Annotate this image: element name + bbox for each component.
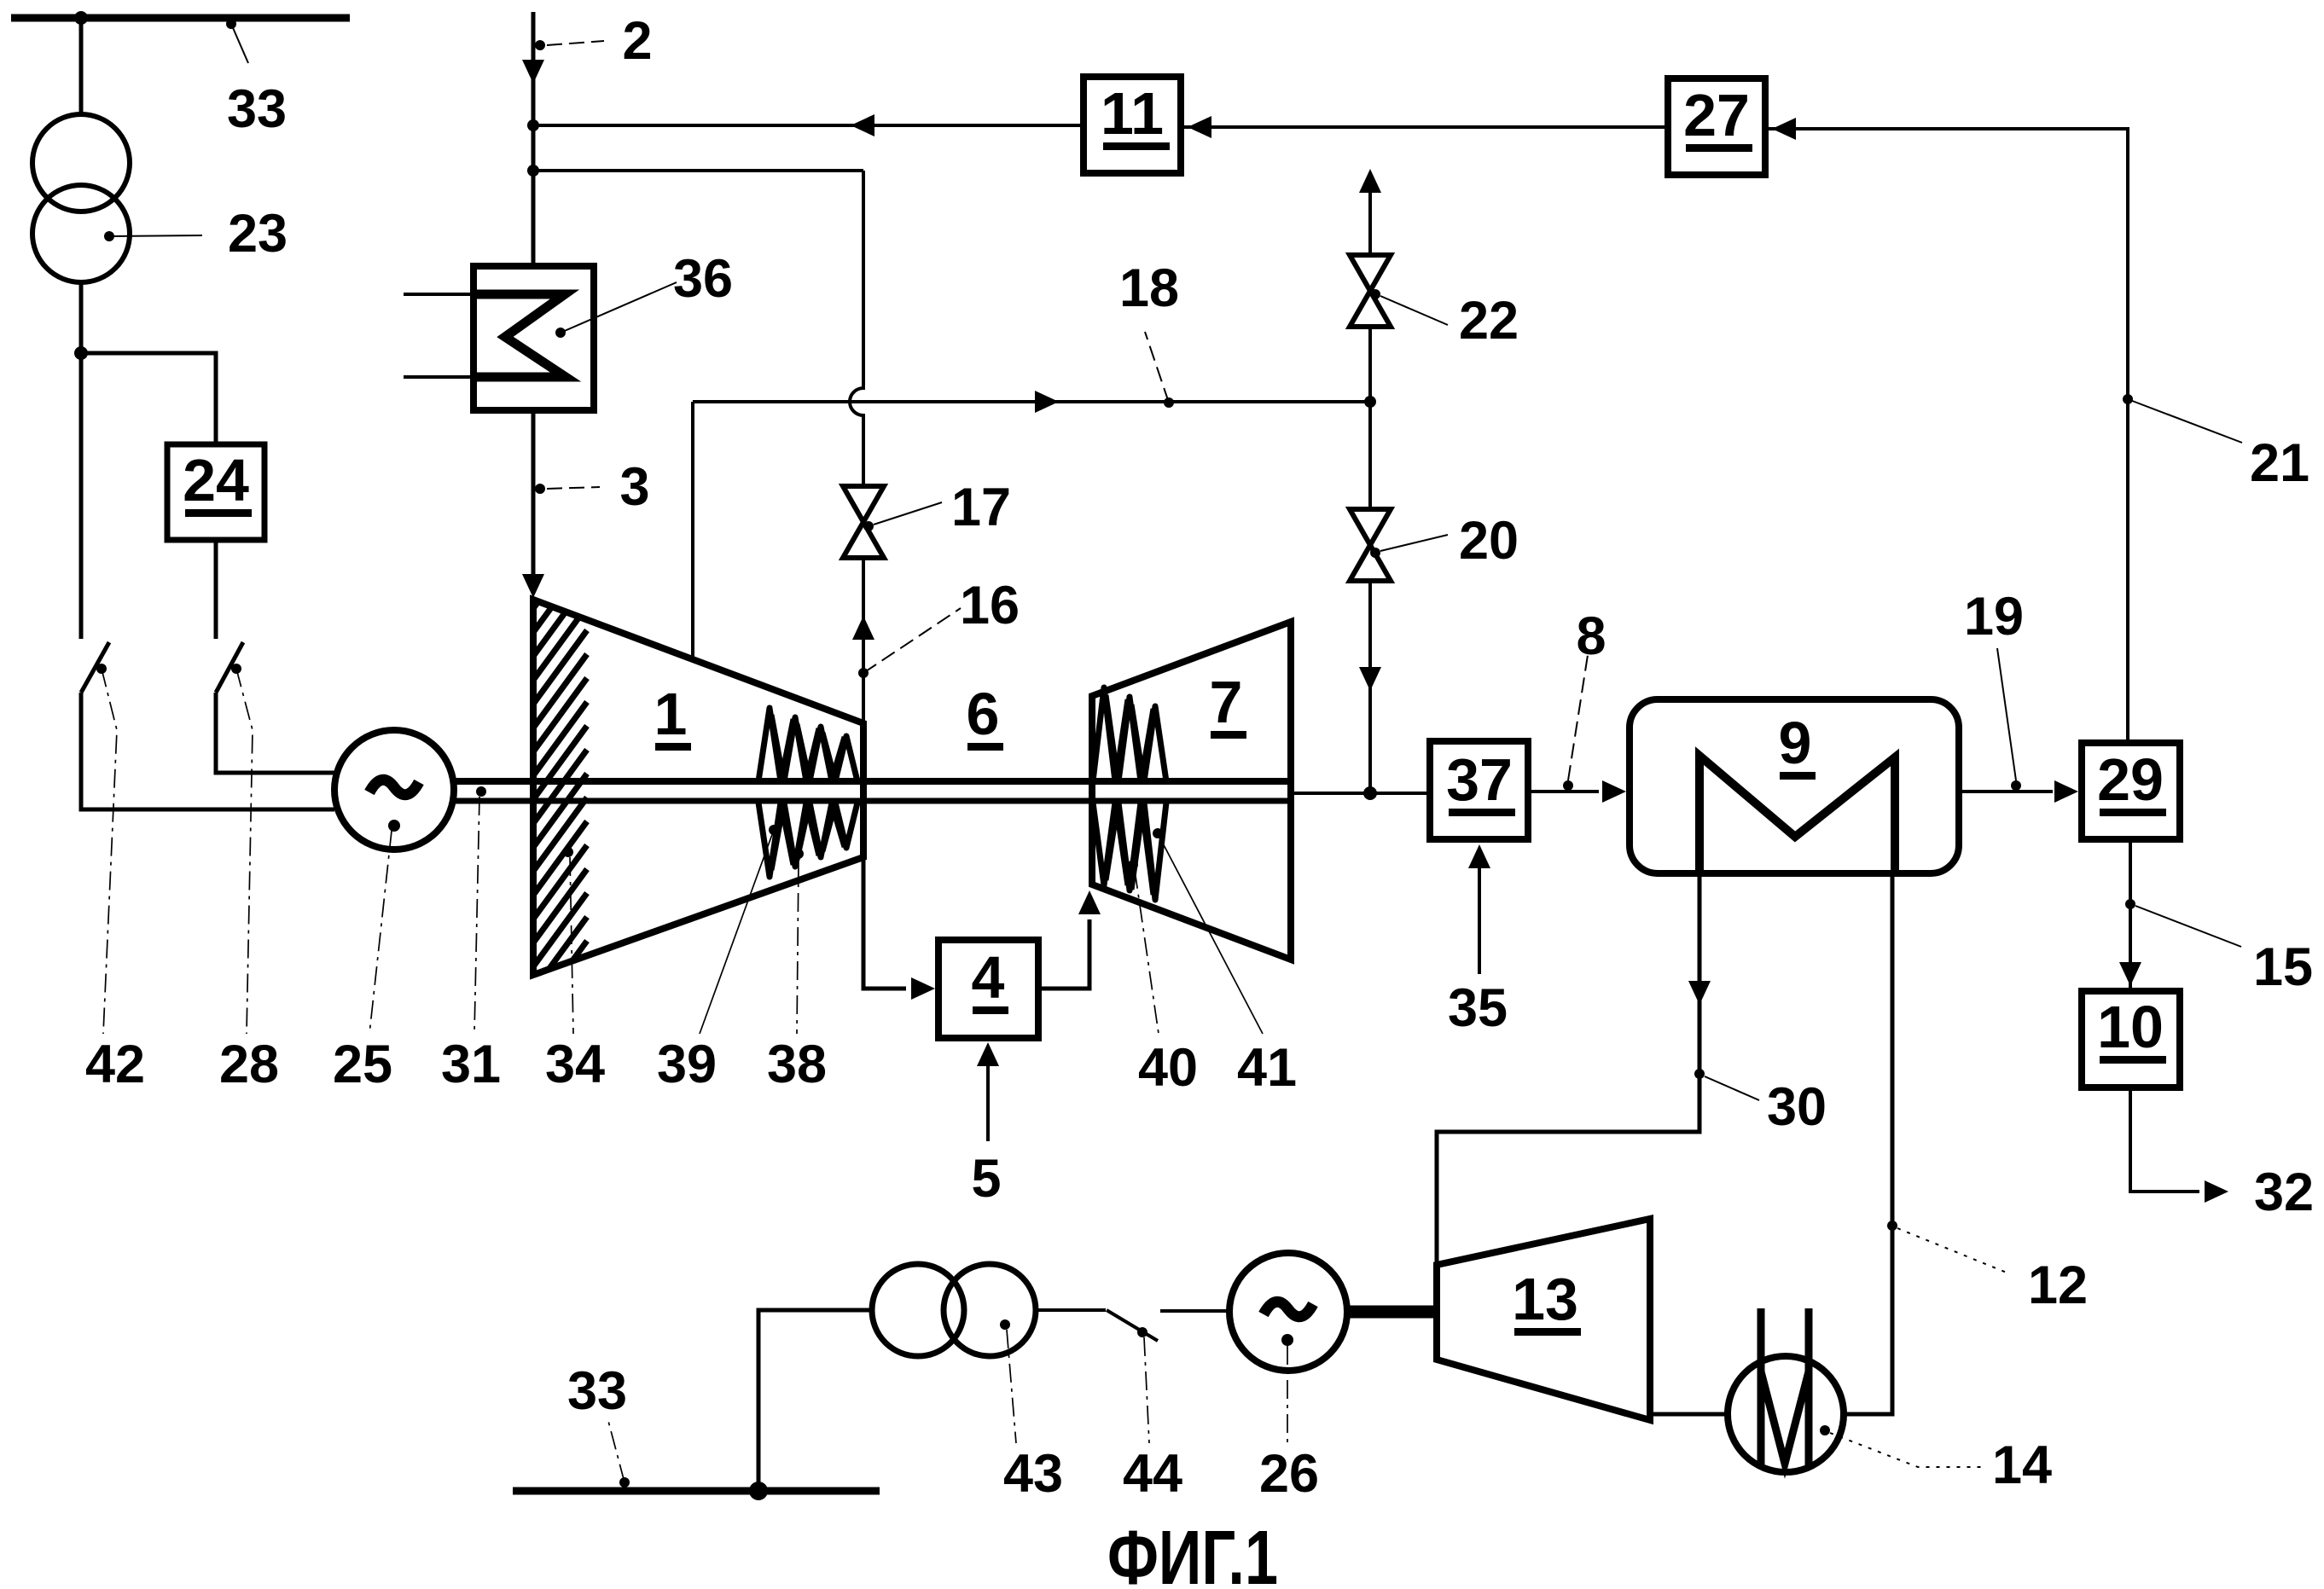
arrow up vent	[1359, 169, 1381, 193]
dot for label 20	[1370, 548, 1380, 558]
dot for label 22	[1370, 289, 1380, 299]
svg-text:7: 7	[1210, 669, 1243, 735]
junction header 18 with valve column	[1364, 396, 1376, 408]
dot for label 41	[1153, 828, 1163, 838]
svg-text:10: 10	[2097, 994, 2164, 1060]
heat exchanger 36 (anti-icing heater)	[474, 266, 594, 410]
svg-text:1: 1	[654, 681, 688, 747]
wire switch 42 to generator 25	[81, 693, 334, 809]
label 7	[1210, 669, 1246, 739]
arrow into combustor 4	[911, 977, 935, 1000]
heat recovery boiler 9	[1630, 699, 1959, 873]
label 37	[1446, 746, 1515, 816]
box 10	[2082, 991, 2180, 1087]
label 4	[972, 944, 1008, 1014]
bleed pipe valve 17 to compressor exit	[862, 558, 865, 723]
dot inside generator 25	[388, 820, 400, 832]
svg-text:6: 6	[967, 681, 1000, 747]
junction node below transformer 23	[74, 346, 88, 360]
leader for label 2	[547, 41, 604, 45]
leader for label 31	[474, 797, 479, 1034]
dot for label 15	[2125, 899, 2135, 909]
svg-text:43: 43	[1003, 1444, 1063, 1504]
arrow into compressor inlet	[522, 574, 544, 598]
arrow up on bleed pipe 16	[852, 616, 874, 640]
duct 15 box 29 to box 10	[2129, 839, 2132, 991]
wire 21 riser to box 27	[1765, 129, 2128, 743]
svg-text:20: 20	[1459, 511, 1519, 571]
wire box 24 to switch 28	[214, 540, 218, 639]
svg-text:28: 28	[219, 1035, 279, 1094]
generator 25	[334, 730, 454, 850]
box 29	[2082, 743, 2180, 839]
steam turbine 13 (trapezoid)	[1437, 1219, 1650, 1420]
AC symbol of generator 26	[1264, 1302, 1313, 1316]
leader for label 25	[369, 831, 392, 1034]
riser from compressor bleed to header 18	[691, 402, 694, 659]
svg-text:32: 32	[2254, 1163, 2314, 1222]
leader for label 15	[2135, 906, 2241, 947]
arrow into box 10	[2119, 962, 2141, 986]
svg-text:4: 4	[972, 944, 1005, 1011]
svg-text:30: 30	[1767, 1077, 1827, 1137]
anti-ice wire from node to valve 17 drop	[533, 169, 863, 172]
label 29	[2097, 746, 2166, 816]
svg-text:34: 34	[545, 1035, 605, 1094]
dot on switch 42	[96, 664, 107, 674]
leader for label 21	[2128, 399, 2242, 443]
dot inside generator 26	[1281, 1334, 1293, 1346]
leader for label 28	[236, 669, 253, 1034]
dot for label 30	[1694, 1069, 1705, 1079]
leader for label 16	[863, 608, 961, 673]
dot for label 19	[2011, 780, 2021, 791]
dot for label 36	[555, 328, 566, 338]
hot gas duct combustor to turbine 7	[1038, 919, 1089, 989]
junction exhaust with valve 20 pipe	[1363, 786, 1377, 800]
arrow into boiler 9	[1602, 780, 1626, 803]
svg-text:40: 40	[1138, 1038, 1198, 1098]
leader for label 8	[1568, 655, 1588, 780]
valve 20	[1350, 509, 1391, 581]
condenser 14	[1728, 1356, 1844, 1472]
exhaust turbine 13 to condenser 14	[1650, 1412, 1728, 1417]
line 35 into box 37	[1478, 856, 1481, 974]
svg-text:37: 37	[1446, 746, 1513, 813]
dot for label 18	[1164, 397, 1174, 408]
leader for label 17	[874, 502, 942, 525]
dot for label 21	[2123, 394, 2133, 404]
dot for label 17	[863, 521, 874, 531]
compressor blade seals lower (39/38)	[758, 803, 857, 877]
leader for label 38	[797, 859, 799, 1034]
leader for label 39	[700, 830, 774, 1034]
wire transformer 23 down to switch 42	[79, 282, 84, 639]
AC symbol of generator 25	[369, 780, 419, 794]
svg-text:39: 39	[657, 1035, 717, 1094]
coil symbol of heat exchanger 36	[474, 294, 566, 377]
leader for label 12	[1897, 1228, 2007, 1273]
transformer 43 (two-winding)	[872, 1264, 1036, 1356]
svg-text:29: 29	[2097, 746, 2164, 813]
shaft generator 26 to turbine 13	[1347, 1306, 1437, 1319]
generator 26	[1229, 1253, 1347, 1371]
svg-text:31: 31	[441, 1035, 501, 1094]
box 11	[1084, 77, 1181, 173]
leader for label 18	[1145, 332, 1169, 403]
svg-text:33: 33	[567, 1361, 627, 1421]
dot on switch 44	[1137, 1327, 1147, 1337]
label 27	[1683, 82, 1752, 152]
dot on shaft for label 31	[476, 786, 486, 797]
bleed header 18	[693, 400, 1370, 403]
valve 17	[843, 486, 884, 558]
svg-text:44: 44	[1123, 1444, 1182, 1504]
node on intake line (recirculation tie-in)	[527, 119, 539, 131]
pipe header to valve 20	[1368, 402, 1372, 509]
hatching of compressor inlet wall 34	[534, 535, 587, 1061]
wire transformer 43 to bottom busbar	[758, 1310, 872, 1491]
boiler 9 internal M coil	[1699, 756, 1895, 873]
wire transformer 43 to switch 44	[1036, 1308, 1106, 1312]
vent pipe above valve 22	[1368, 192, 1372, 255]
node on intake line (anti-ice tie-in)	[527, 165, 539, 177]
svg-text:19: 19	[1964, 587, 2024, 647]
leader for label 36	[561, 282, 677, 333]
arrow of outlet 32	[2205, 1180, 2228, 1203]
svg-text:25: 25	[333, 1035, 392, 1094]
svg-text:15: 15	[2253, 937, 2313, 997]
arrow into box 11	[1188, 116, 1211, 138]
svg-text:21: 21	[2250, 433, 2309, 493]
turbine 7 (trapezoid casing)	[1092, 622, 1291, 960]
leader for label 26	[1287, 1346, 1288, 1446]
gas outlet duct 19 from boiler	[1959, 790, 2053, 793]
turbine exhaust duct to box 37	[1291, 792, 1430, 795]
svg-text:26: 26	[1259, 1444, 1319, 1504]
label 24	[183, 447, 252, 517]
svg-text:3: 3	[619, 457, 649, 517]
switch 44 blade	[1107, 1310, 1158, 1341]
svg-text:18: 18	[1119, 258, 1179, 318]
wire busbar to transformer 23	[79, 18, 84, 116]
leader for label 42	[102, 669, 117, 1034]
pipe header to valve 22	[1368, 327, 1372, 402]
arrow into turbine 7	[1078, 890, 1101, 914]
wire box 27 to box 11	[1181, 125, 1668, 129]
dot for label 16	[858, 668, 869, 678]
transformer 23 (two-winding)	[32, 114, 130, 282]
svg-text:38: 38	[767, 1035, 827, 1094]
dot for label 39	[769, 825, 779, 835]
svg-text:2: 2	[622, 11, 652, 71]
label 9	[1779, 710, 1816, 780]
svg-text:22: 22	[1459, 291, 1519, 351]
svg-text:36: 36	[673, 249, 733, 309]
dot for label 40	[1128, 860, 1138, 870]
box 27	[1668, 78, 1765, 175]
compressor discharge duct to combustor 4	[863, 857, 906, 989]
svg-text:11: 11	[1101, 80, 1164, 147]
pipe valve 20 down to exhaust duct	[1368, 581, 1372, 793]
svg-text:35: 35	[1448, 978, 1508, 1038]
leader for label 23	[104, 231, 202, 241]
wire switch 28 to generator 25	[216, 693, 335, 773]
box 24 (control unit)	[167, 444, 264, 540]
duct box 37 to boiler 9	[1528, 790, 1599, 793]
box 37	[1430, 741, 1528, 839]
svg-text:8: 8	[1576, 606, 1606, 666]
svg-text:13: 13	[1512, 1266, 1578, 1332]
svg-text:17: 17	[951, 478, 1011, 537]
switch 28 (breaker blade)	[216, 642, 243, 693]
svg-text:42: 42	[85, 1035, 145, 1094]
junction on bottom busbar	[749, 1482, 768, 1500]
svg-text:33: 33	[227, 79, 287, 139]
svg-text:23: 23	[228, 204, 288, 264]
leader for label 40	[1135, 870, 1159, 1034]
wire junction to box 24	[81, 353, 216, 444]
dot for label 2	[535, 40, 545, 50]
busbar 33 (top grid bus)	[11, 14, 350, 22]
heating medium pipe lower of 36	[404, 375, 474, 379]
valve 17 drop upper segment with hop over line 18	[850, 171, 863, 486]
leader for label 34	[570, 857, 573, 1034]
compressor blade seals upper (39/38)	[758, 708, 857, 781]
recirculation wire 11 to intake node	[533, 124, 1084, 127]
dot for label 3	[535, 484, 545, 494]
heating medium pipe upper of 36	[404, 293, 474, 296]
leader for label 14	[1830, 1433, 1982, 1467]
label 10	[2097, 994, 2166, 1064]
air intake line 2 upper segment	[532, 12, 536, 267]
dot on switch 28	[231, 664, 241, 674]
leader for label 43	[1007, 1330, 1016, 1443]
outlet 32 from box 10	[2130, 1087, 2199, 1192]
valve 22	[1350, 255, 1391, 327]
svg-text:5: 5	[971, 1149, 1001, 1209]
leader for label 3	[547, 487, 600, 489]
dot for label 14	[1820, 1425, 1830, 1435]
leader for label 41	[1160, 838, 1263, 1034]
shaft lower line	[452, 798, 1291, 804]
shaft upper line	[452, 778, 1291, 785]
dot for label 12	[1887, 1221, 1897, 1231]
svg-text:12: 12	[2028, 1256, 2088, 1315]
svg-text:9: 9	[1779, 710, 1812, 776]
dot for label 8	[1563, 780, 1573, 791]
dot on transformer 43	[1000, 1319, 1010, 1330]
switch 42 (breaker blade)	[81, 642, 109, 693]
turbine 7 blade seals upper (40/41)	[1093, 687, 1166, 781]
leader for label 44	[1144, 1337, 1149, 1443]
air line 3 into compressor	[532, 410, 536, 577]
junction on busbar 33	[74, 11, 88, 25]
arrow of line 35	[1468, 844, 1490, 868]
cooling water pipes of condenser 14	[1761, 1308, 1809, 1465]
svg-text:27: 27	[1683, 82, 1750, 148]
leader for label 22	[1380, 296, 1448, 325]
dot for label 38	[793, 849, 804, 859]
leader for bottom label 33	[608, 1421, 630, 1488]
arrow into box 27	[1772, 118, 1796, 140]
leader for label 33	[226, 19, 248, 63]
arrow down on that pipe	[1359, 667, 1381, 691]
arrow on intake line 2	[522, 60, 544, 84]
label 11	[1101, 80, 1170, 150]
arrow down on steam line	[1688, 981, 1711, 1005]
label 13	[1512, 1266, 1581, 1336]
compressor 1 (trapezoid casing)	[533, 600, 863, 975]
arrow into box 29	[2054, 780, 2078, 803]
leader for label 19	[1997, 648, 2016, 780]
leader for label 30	[1705, 1076, 1759, 1100]
fuel line 5	[986, 1060, 990, 1141]
svg-text:24: 24	[183, 447, 249, 513]
wire generator 26 to switch 44	[1160, 1309, 1229, 1313]
arrow toward intake on that wire	[851, 114, 874, 136]
combustor box 4	[938, 940, 1038, 1038]
arrow of fuel line into box 4	[977, 1042, 999, 1066]
label 1	[654, 681, 691, 751]
condensate line 12	[1844, 873, 1892, 1414]
steam line 30 boiler to turbine 13	[1437, 873, 1699, 1263]
svg-text:41: 41	[1237, 1038, 1297, 1098]
svg-text:16: 16	[960, 576, 1020, 635]
leader for label 20	[1380, 535, 1448, 551]
busbar 33 (bottom grid bus)	[513, 1488, 880, 1495]
svg-text:14: 14	[1992, 1435, 2052, 1495]
turbine 7 blade seals lower (40/41)	[1093, 803, 1166, 900]
dot on hatching for label 34	[563, 847, 573, 857]
label 6 (shaft section)	[967, 681, 1003, 751]
arrow right on header 18	[1035, 391, 1059, 413]
svg-text:ФИГ.1: ФИГ.1	[1107, 1516, 1278, 1589]
